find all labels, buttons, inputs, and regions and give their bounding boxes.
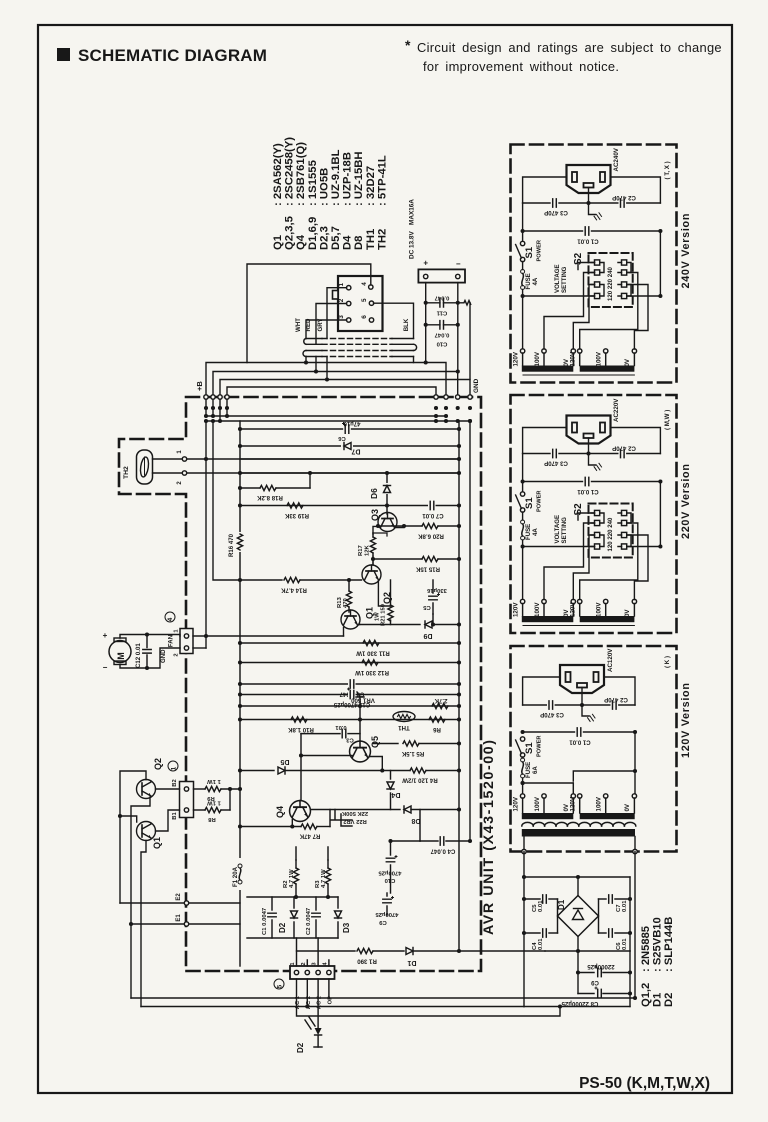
wire TH2 pin1 [153,458,185,460]
svg-text:C9: C9 [590,979,598,986]
wire bridge right rail segment [629,877,631,951]
svg-text:330µ16: 330µ16 [426,587,446,593]
capacitor C1 0.01 120V [575,728,583,737]
capacitor C3 470P [551,199,559,208]
svg-text:+: + [423,259,428,268]
wire plug left [0,0,1,1]
svg-text:0.01: 0.01 [622,900,628,912]
AC inlet plug 120V [560,665,604,693]
capacitor C3 470P 120V [547,701,555,710]
wire motor bottom [120,648,180,668]
svg-text:2: 2 [301,962,307,965]
wire pin5 BLK [374,303,414,338]
svg-text:4A: 4A [532,277,539,285]
capacitor C1 0.01 [583,477,591,486]
diode D5 [240,770,274,772]
wire bus vertical to R14 [213,421,240,580]
svg-text:1: 1 [171,766,178,770]
capacitor C2 0.0047 [315,897,317,910]
wire S2 left bus [544,273,595,350]
svg-text:C7 0.01: C7 0.01 [422,512,444,519]
wire bridge bottom [545,950,630,952]
svg-text:D4: D4 [342,235,354,250]
svg-text:4: 4 [167,617,174,621]
capacitor C7 0.01 [428,501,436,510]
svg-text:D2,3: D2,3 [318,226,330,250]
svg-text:12K: 12K [365,544,371,556]
AC inlet plug [567,416,611,444]
resistor R21 150 1W [390,600,392,606]
resistor R9 1 1W [194,788,206,790]
switch S1 POWER [520,241,524,245]
wire B1 to Q1 [156,810,180,831]
svg-text:R19 33K: R19 33K [284,512,309,519]
svg-text:VR1 500: VR1 500 [351,697,375,704]
wire Q2 emitter to Q1 [131,797,150,998]
wire S1 to S2 [523,546,595,548]
wire bracket line 3 [220,380,470,422]
svg-text:: 1S1555: : 1S1555 [307,160,319,206]
bus +B horizontal [206,415,446,417]
svg-text:Q4: Q4 [275,806,285,818]
wire long bottom [131,997,635,999]
capacitor C8 22000u25 [578,993,594,995]
svg-text:120V: 120V [512,602,519,617]
transformer secondary bar [522,829,635,837]
fuse F1 20A [233,858,247,890]
wire S2 right row3 [627,285,648,350]
svg-text:D6: D6 [369,488,379,499]
wire AC1 long [297,979,561,1016]
inner box right edge [458,421,460,951]
svg-text:R21 150: R21 150 [381,604,387,626]
svg-text:POWER: POWER [537,736,543,758]
wire motor top [120,635,180,639]
svg-text:D5: D5 [280,758,289,765]
resistor R5 1.5K [373,743,398,745]
svg-text:RED: RED [305,318,312,331]
svg-text:1 1W: 1 1W [207,778,221,784]
diode D7 zener [240,445,459,447]
wire TH2 pin2 [153,472,185,474]
svg-text:120V: 120V [512,796,519,811]
svg-text:3: 3 [338,315,345,319]
trimmer VR2 R22 22K 500K [331,810,352,827]
transistor Q2b [362,565,381,584]
wire bridge left rail [523,852,525,1007]
svg-text:GND: GND [473,378,480,393]
wire OP [328,979,330,998]
sub-block rect lines [247,896,338,898]
svg-text:Q1: Q1 [272,235,284,250]
svg-text:D8: D8 [411,817,420,824]
svg-text:B2: B2 [172,779,178,786]
capacitor C2 470P 120V [611,701,619,710]
wire Q2 collector to B2 [156,788,180,790]
wire Q2 emitter down [378,580,390,606]
svg-text:100V: 100V [534,351,541,366]
transformer primary bar 2 [580,616,635,622]
wire S2 left row3 [573,285,594,350]
wire AVR out to bridge [459,950,545,952]
svg-text:100V: 100V [534,602,541,617]
capacitor C8 0.047 [240,683,459,685]
svg-text:GND: GND [160,649,167,663]
resistor R17 12K [372,533,374,537]
svg-text:100V: 100V [596,796,603,811]
wire S2 right row3 [627,535,648,600]
diode D3 [337,897,339,908]
capacitor C3 470P [551,449,559,458]
svg-text:D1: D1 [557,899,566,910]
svg-text:C10: C10 [384,877,396,883]
transistor Q4 [290,801,311,822]
svg-text:: SLP144B: : SLP144B [663,917,675,972]
svg-text:0V: 0V [624,803,631,811]
motor M [109,641,131,663]
svg-text:0.01: 0.01 [335,724,347,730]
svg-text:TH2: TH2 [376,229,388,250]
svg-text:( K ): ( K ) [664,656,671,668]
wire 0V bar2 up [634,581,661,590]
svg-text:AC120V: AC120V [607,648,614,672]
svg-text:FAN: FAN [168,635,175,647]
capacitor C10 0.047 [440,321,444,329]
feedthrough terminals top edge [204,395,208,399]
resistor R4 120 1/2W [410,768,426,773]
resistor R2 4.7 1W [295,860,297,868]
svg-text:4700µ25: 4700µ25 [378,870,402,876]
svg-text:C6: C6 [338,435,346,441]
wire row1 left [578,263,595,270]
transistor Q3 [378,513,397,532]
wire S2 left bus [544,523,595,600]
svg-text:100V: 100V [596,602,603,617]
svg-text:VOLTAGE: VOLTAGE [554,515,561,544]
svg-text:C9: C9 [379,919,387,925]
svg-text:: UZ-15BH: : UZ-15BH [353,151,365,206]
wire secondary taps [523,837,525,852]
resistor R19 33K [240,505,459,507]
svg-text:C3: C3 [346,737,354,743]
wire 0V bar2 up [634,331,661,340]
svg-text:TH2: TH2 [123,466,130,479]
wire plug left [0,0,1,1]
svg-text:120V Version: 120V Version [680,682,692,758]
wire TH2 lines into box [187,458,459,460]
svg-text:C5: C5 [423,604,431,610]
wire right outer vertical [469,421,471,841]
svg-text:MAX16A: MAX16A [409,199,416,225]
svg-text:PS-50 (K,M,T,W,X): PS-50 (K,M,T,W,X) [579,1075,710,1092]
transistor Q1 [137,822,156,841]
svg-text:C2 0.0047: C2 0.0047 [306,907,312,935]
svg-text:D2: D2 [663,993,675,1007]
svg-text:0V: 0V [624,609,631,617]
capacitor C1 0.0047 [271,897,273,910]
bus GND horizontal [206,420,470,422]
dashed box 120V Version [511,646,677,852]
wire fan pin2 to bus [193,647,206,649]
svg-text:Q5: Q5 [370,736,380,748]
svg-text:R12 330 1W: R12 330 1W [355,669,389,676]
inner box left edge [239,421,241,860]
transformer terminals 120V [520,794,524,798]
svg-text:120V: 120V [570,351,577,366]
svg-text:D1: D1 [407,959,416,966]
svg-text:( M,W ): ( M,W ) [664,410,671,430]
wire bridge right rail [634,852,636,999]
svg-text:C10: C10 [436,341,448,347]
capacitor C2 470P [619,449,627,458]
wire C line 120V [523,704,635,706]
svg-text:R16 470: R16 470 [228,533,235,557]
resistor R6 2.7K right [432,703,448,708]
svg-text:Q2: Q2 [153,758,163,770]
svg-text:Circuit design and ratings are: Circuit design and ratings are subject t… [417,40,722,55]
resistor R6 [429,717,445,722]
svg-text:R7 47K: R7 47K [299,833,320,840]
svg-text:: 32D27: : 32D27 [365,166,377,206]
wire Q5 emitter [370,757,382,771]
svg-text:1: 1 [338,282,345,286]
svg-text:2.7K: 2.7K [434,697,447,704]
svg-text:1: 1 [290,962,296,966]
wire pin1 WHT [327,288,347,339]
svg-text:1: 1 [177,450,183,454]
svg-text:: UZ-9.1BL: : UZ-9.1BL [330,149,342,206]
svg-text:120V: 120V [570,796,577,811]
capacitor C6 47u10 [240,428,459,430]
svg-text:: 5TP-41L: : 5TP-41L [376,155,388,206]
wire AC2 long [141,1006,524,1008]
svg-text:F1 20A: F1 20A [232,866,239,887]
svg-text:R18 8.2K: R18 8.2K [257,494,283,501]
wire right vertical to S2 [627,231,661,296]
svg-text:POWER: POWER [537,240,543,262]
ferrite bead [458,301,471,306]
svg-text:Q4: Q4 [295,234,307,250]
wire S2 right row1 [580,523,638,600]
svg-text:R17: R17 [358,544,364,556]
svg-text:4700µ25: 4700µ25 [375,911,399,917]
resistor R13 470 [348,580,350,591]
wires R2 R3 top [296,847,328,860]
wire Q4 collector vertical [300,734,302,800]
svg-text:: 2SA562(Y): : 2SA562(Y) [272,143,284,206]
diode D2b [293,897,295,908]
wire pin4 loop [247,264,371,363]
wire plug right [611,177,661,203]
capacitor C5 0.01 bridge [545,901,558,931]
transistor Q2 [137,780,156,799]
svg-text:GRY: GRY [317,319,324,332]
svg-text:C12 0.01: C12 0.01 [135,643,142,668]
transformer primary bar1 120V [522,813,574,819]
resistor R15 15K [373,558,422,560]
svg-text:0.01: 0.01 [622,938,628,950]
svg-text:120V: 120V [570,602,577,617]
svg-text:1 1W: 1 1W [207,800,221,806]
transformer primary bar 1 [522,616,574,622]
connector AC 4-pin [290,966,335,979]
wire Q5 base vertical [359,706,361,741]
svg-text:C2 470P: C2 470P [612,445,636,452]
transformer primary bar 2 [580,366,635,372]
svg-text:0.01: 0.01 [538,938,544,950]
switch S2 voltage setting [589,504,633,558]
wire Q1b connections [390,580,392,600]
svg-text:R8: R8 [208,816,216,822]
fuse F 4A [521,520,525,540]
capacitor C1 0.01 [583,227,591,236]
resistor R11 330 1W [240,642,459,644]
svg-text:DC 13.8V: DC 13.8V [409,231,416,259]
svg-text:E2: E2 [176,893,182,901]
switch S1 POWER [520,492,524,496]
svg-text:0.047: 0.047 [434,295,449,301]
svg-text:C2 470P: C2 470P [604,696,628,703]
svg-text:TH1: TH1 [365,229,377,250]
svg-text:FUSE: FUSE [525,273,532,289]
bridge rectifier D1 [558,896,599,937]
svg-text:5: 5 [361,298,368,302]
svg-text:47µ10: 47µ10 [343,420,361,427]
svg-text:D2: D2 [296,1042,305,1053]
svg-text:22K 500K: 22K 500K [341,810,368,816]
svg-text:2: 2 [177,481,183,485]
resistor R14 4.7K [240,579,282,581]
svg-text:C11: C11 [436,310,447,316]
svg-text:M: M [116,652,126,660]
wire plug right 120V [604,677,635,705]
svg-text:5: 5 [277,984,284,988]
wire bridge top [524,876,630,878]
resistor R16 470 on left edge [235,532,245,552]
diode D6 [386,473,388,506]
svg-text:D4: D4 [391,791,400,798]
svg-text:S1: S1 [524,497,535,509]
thermistor TH1 [393,712,415,722]
svg-text:4: 4 [361,282,368,286]
svg-text:SETTING: SETTING [561,266,568,293]
transformer primary terminals [520,349,524,353]
capacitor C9 22000u25 [577,951,579,994]
wire fan line into box [193,635,344,637]
capacitor C10b 4700u25 [390,841,392,855]
diode D2 LED [317,979,319,1028]
svg-text:( T, X ): ( T, X ) [664,161,671,179]
wire plug center ground [589,438,596,465]
svg-text:TH1: TH1 [398,724,410,731]
diode D9 [358,624,361,627]
wire sub-block to connector [297,938,329,966]
transformer winding arcs [522,822,533,826]
svg-text:AC220V: AC220V [613,398,620,422]
wire S2 left row3 [573,535,594,600]
wire plug left 120V [523,677,560,705]
wire plug ground 120V [582,688,589,717]
wire E1 entry [131,923,186,925]
wire bundle twisted pair [306,338,322,340]
svg-text:R14 4.7K: R14 4.7K [281,587,307,594]
svg-text:POWER: POWER [537,491,543,513]
svg-text:: 2N5885: : 2N5885 [640,926,652,972]
svg-text:D1: D1 [652,993,664,1007]
svg-text:1W: 1W [375,612,381,621]
svg-text:BLK: BLK [403,318,410,331]
svg-text:R1 390: R1 390 [357,958,377,965]
svg-text:+: + [103,631,108,640]
resistor R12 330 1W [240,662,459,664]
wire line C2 C3 [523,453,661,455]
wire line3 [240,458,459,460]
capacitor C4 0.047 [420,840,438,842]
svg-text:R20 6.8K: R20 6.8K [418,533,444,540]
marker circled 5 [274,979,284,989]
svg-text:D7: D7 [351,448,360,455]
svg-text:C1 0.01: C1 0.01 [577,238,599,245]
svg-text:120 220 240: 120 220 240 [607,517,614,551]
svg-text:4A: 4A [532,528,539,536]
svg-text:470: 470 [343,597,349,608]
svg-text:D9: D9 [423,632,432,639]
transformer primary terminals [520,599,524,603]
resistor R3 4.7 1W [327,860,329,868]
svg-text:100V: 100V [596,351,603,366]
wire DC- down [457,283,459,372]
svg-text:D2: D2 [278,922,287,933]
dashed box 240V Version [511,145,677,383]
svg-text:+B: +B [195,381,204,391]
svg-text:D8: D8 [353,236,365,250]
svg-text:2: 2 [174,653,180,656]
svg-text:SETTING: SETTING [561,517,568,544]
svg-text:D3: D3 [342,922,351,933]
capacitor C3b 0.01 [301,733,340,735]
svg-text:*: * [405,37,411,53]
svg-text:R10 1.8K: R10 1.8K [288,726,314,733]
svg-text:R6: R6 [432,726,440,733]
wire right vertical 120V [573,732,635,781]
wire S1 to S2 [523,295,595,297]
wire Q1 down [141,841,146,1007]
svg-text:C1 0.01: C1 0.01 [569,739,591,746]
svg-text:R15 15K: R15 15K [415,566,440,573]
AC inlet plug [567,165,611,193]
switch S2 voltage setting [589,253,633,307]
resistor R8 1 1W [194,809,206,811]
svg-text:AVR UNIT (X43-1520-00): AVR UNIT (X43-1520-00) [481,738,497,935]
capacitor C7 0.01 bridge [599,898,607,900]
dashed box 220V Version [511,395,677,633]
svg-text:120 220 240: 120 220 240 [607,267,614,301]
transformer primary bar2 120V [580,813,635,819]
svg-text:: 2SB761(Q): : 2SB761(Q) [295,142,307,206]
svg-text:C1 0.0047: C1 0.0047 [262,907,268,935]
wire Q2 top [120,771,146,903]
capacitor C5 330u16 [432,580,434,593]
svg-text:: 2SC2458(Y): : 2SC2458(Y) [284,137,296,206]
wire bracket line 2 [213,372,458,417]
svg-text:4.7 1W: 4.7 1W [289,869,295,888]
svg-text:C3 470P: C3 470P [544,209,568,216]
svg-text:220V Version: 220V Version [680,463,692,539]
svg-text:2: 2 [338,298,345,302]
wire line4 [240,472,459,474]
svg-text:D5,7: D5,7 [330,226,342,250]
marker circled 4 [165,612,175,622]
